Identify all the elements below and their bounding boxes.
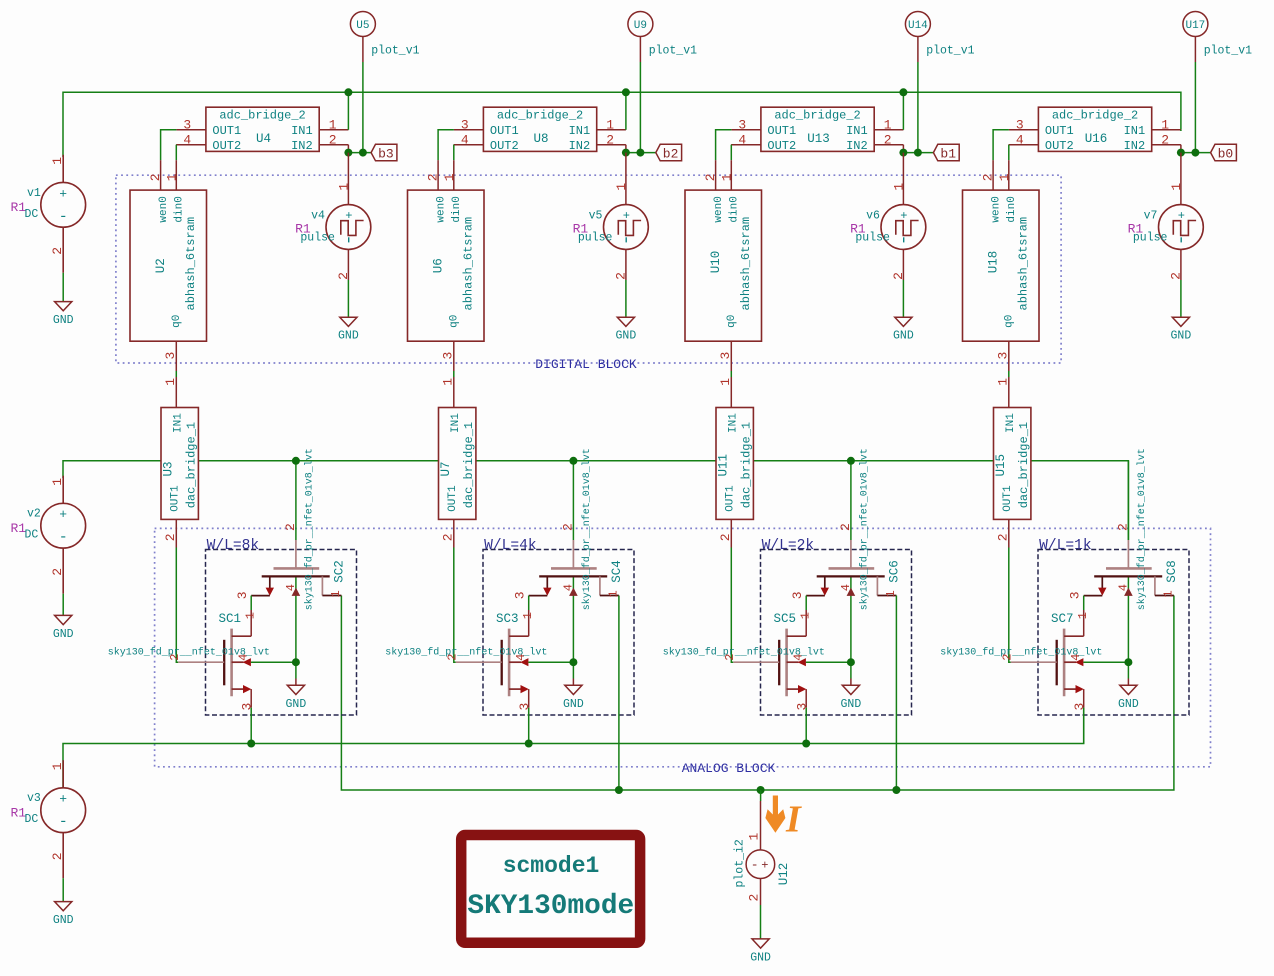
ground under v1 (53, 302, 74, 328)
svg-text:W/L=8k: W/L=8k (207, 538, 260, 554)
analog block border (155, 528, 1211, 766)
abhash_6tsram U18 (963, 160, 1040, 371)
svg-text:W/L=1k: W/L=1k (1039, 538, 1092, 554)
wire v2 to ground (62, 594, 64, 616)
wire U18 q0 to U15 IN1 (1008, 371, 1010, 377)
wire U15 OUT1 down to SC7 gate (1009, 548, 1011, 663)
svg-text:1: 1 (1161, 118, 1169, 133)
svg-text:2: 2 (283, 523, 298, 531)
svg-text:3: 3 (461, 118, 469, 133)
wire SC6 drain to SC5 drain (805, 596, 807, 610)
svg-text:DC: DC (25, 208, 39, 221)
wire U13 OUT2 to U10 din0 (730, 145, 732, 161)
pulse source v4 (295, 180, 371, 280)
wire probe U5 down to IN2 junction (362, 62, 364, 153)
svg-text:q0: q0 (726, 315, 738, 328)
svg-text:-: - (751, 857, 759, 872)
svg-text:3: 3 (738, 118, 746, 133)
svg-text:2: 2 (336, 272, 351, 280)
svg-text:dac_bridge_1: dac_bridge_1 (185, 422, 199, 508)
voltage source v3 (DC) (11, 760, 86, 878)
wire SC5 bulk to gnd junction (806, 662, 851, 685)
nfet SC3 (sky130_fd_pr__nfet_01v8_lvt) (385, 610, 547, 711)
wire U12 to ground (760, 905, 762, 939)
svg-text:SC8: SC8 (1165, 560, 1179, 583)
wire v4 to ground (347, 280, 349, 317)
wire SC1 bulk to gnd junction (251, 662, 296, 685)
svg-text:wen0: wen0 (713, 196, 725, 222)
abhash_6tsram U6 (408, 160, 485, 371)
wire junction down to pulse source v4 (347, 153, 349, 180)
svg-text:2: 2 (50, 247, 65, 255)
svg-text:IN2: IN2 (291, 139, 313, 153)
svg-text:U4: U4 (256, 132, 271, 146)
wire U16 OUT2 to U18 din0 (1008, 145, 1010, 161)
svg-text:3: 3 (794, 703, 809, 711)
wire bottom rail down to U12 (760, 790, 762, 801)
svg-text:SC1: SC1 (219, 612, 242, 626)
nfet SC7 (sky130_fd_pr__nfet_01v8_lvt) (940, 610, 1102, 711)
wire SC6 source to bottom rail (895, 596, 897, 791)
svg-text:U2: U2 (154, 258, 168, 273)
ground under v3 (53, 902, 74, 928)
ground in analog cell col 2 (563, 685, 584, 711)
svg-text:b2: b2 (663, 146, 679, 161)
svg-text:-: - (59, 529, 68, 546)
wire U4 IN2 down to junction (347, 145, 349, 153)
wire v7 to ground (1180, 280, 1182, 317)
svg-text:1: 1 (164, 173, 179, 181)
wire probe U17 down to IN2 junction (1194, 62, 1196, 153)
svg-text:adc_bridge_2: adc_bridge_2 (219, 108, 305, 122)
svg-text:v1: v1 (27, 187, 41, 200)
svg-text:1: 1 (1162, 590, 1176, 597)
wire U16 IN1 up to top rail (1180, 130, 1182, 131)
svg-text:3: 3 (517, 703, 532, 711)
svg-text:1: 1 (521, 612, 535, 619)
svg-text:1: 1 (884, 118, 892, 133)
svg-text:3: 3 (1016, 118, 1024, 133)
svg-text:SC2: SC2 (333, 560, 347, 583)
wire U13 IN2 down to junction (902, 145, 904, 153)
ground in analog cell col 4 (1118, 685, 1139, 711)
svg-text:U9: U9 (634, 20, 647, 32)
svg-text:4: 4 (738, 133, 746, 148)
wire U8 OUT2 to U6 din0 (453, 145, 455, 161)
svg-text:1: 1 (50, 157, 65, 165)
ground in analog cell col 3 (841, 685, 862, 711)
abhash_6tsram U2 (130, 160, 207, 371)
junction IN2 col 4 (1177, 149, 1200, 157)
voltage source v2 (DC) (11, 476, 86, 594)
wire SC2 drain to SC1 drain (250, 596, 252, 610)
svg-text:I: I (785, 799, 802, 841)
voltage source v1 (DC) (11, 155, 86, 273)
wire U4 OUT2 to U2 din0 (175, 145, 177, 161)
svg-text:IN2: IN2 (846, 139, 868, 153)
svg-text:plot_v1: plot_v1 (371, 45, 419, 58)
svg-text:dac_bridge_1: dac_bridge_1 (1017, 422, 1031, 508)
svg-text:1: 1 (996, 378, 1011, 386)
svg-text:OUT1: OUT1 (1045, 124, 1074, 138)
svg-text:U6: U6 (431, 258, 445, 273)
wire U13 OUT1 to U10 wen0 (716, 130, 732, 160)
digital block label (535, 357, 637, 372)
wire junction to flag b0 (1181, 152, 1211, 154)
svg-text:1: 1 (337, 183, 352, 191)
svg-text:2: 2 (148, 173, 163, 181)
flag b0 (1211, 144, 1237, 161)
junction IN2 col 1 (344, 149, 367, 157)
dac_bridge_1 U15 (994, 377, 1032, 548)
wire U2 q0 to U3 IN1 (175, 371, 177, 377)
svg-text:GND: GND (1118, 698, 1139, 711)
adc_bridge_2 U13 (731, 107, 903, 153)
svg-text:SC6: SC6 (888, 560, 902, 583)
wire U16 OUT1 to U18 wen0 (993, 130, 1009, 160)
svg-text:U11: U11 (717, 454, 731, 477)
svg-text:v5: v5 (589, 209, 603, 222)
svg-text:1: 1 (50, 478, 65, 486)
svg-text:OUT2: OUT2 (490, 139, 519, 153)
svg-text:U17: U17 (1185, 20, 1205, 32)
svg-text:plot_v1: plot_v1 (649, 45, 697, 58)
svg-text:2: 2 (1161, 133, 1169, 148)
svg-text:2: 2 (746, 894, 761, 902)
adc_bridge_2 U16 (1009, 107, 1181, 153)
svg-text:1: 1 (442, 173, 457, 181)
wire lower rail from v3 to SC1/SC3/SC5/SC7 sources (63, 708, 1084, 788)
svg-text:3: 3 (239, 703, 254, 711)
svg-text:2: 2 (1169, 272, 1184, 280)
flag b1 (933, 144, 959, 161)
wire probe U9 down to IN2 junction (639, 62, 641, 153)
svg-text:GND: GND (563, 698, 584, 711)
svg-text:2: 2 (703, 173, 718, 181)
svg-text:U18: U18 (986, 251, 1000, 274)
wire SC1 source to lower rail (250, 708, 252, 744)
svg-text:adc_bridge_2: adc_bridge_2 (774, 108, 860, 122)
wire junction down to pulse source v7 (1180, 153, 1182, 180)
wire mid rail down to SC2 gate (295, 461, 297, 540)
W/L label col 4 (1039, 538, 1092, 554)
nfet SC5 (sky130_fd_pr__nfet_01v8_lvt) (663, 610, 825, 711)
svg-text:dac_bridge_1: dac_bridge_1 (740, 422, 754, 508)
ground under v5 (616, 317, 637, 343)
svg-text:2: 2 (50, 852, 65, 860)
ground under U12 (750, 939, 771, 965)
svg-text:SC5: SC5 (774, 612, 797, 626)
svg-text:4: 4 (1016, 133, 1024, 148)
svg-text:U12: U12 (777, 863, 791, 886)
svg-text:2: 2 (996, 533, 1011, 541)
svg-text:1: 1 (1076, 612, 1090, 619)
dac_bridge_1 U3 (161, 377, 199, 548)
voltage probe U5 (plot_v1) (350, 12, 419, 63)
svg-text:sky130_fd_pr__nfet_01v8_lvt: sky130_fd_pr__nfet_01v8_lvt (108, 647, 270, 659)
svg-text:b3: b3 (378, 146, 394, 161)
svg-text:OUT2: OUT2 (767, 139, 796, 153)
svg-text:U8: U8 (534, 132, 549, 146)
svg-text:abhash_6tsram: abhash_6tsram (739, 217, 753, 311)
junction bulk col 3 (847, 658, 855, 666)
ground under v4 (338, 317, 359, 343)
svg-text:2: 2 (838, 523, 853, 531)
wire junction down to pulse source v5 (625, 153, 627, 180)
svg-text:2: 2 (718, 533, 733, 541)
svg-text:GND: GND (841, 698, 862, 711)
pulse source v6 (850, 180, 926, 280)
wire v6 to ground (902, 280, 904, 317)
W/L label col 1 (207, 538, 260, 554)
current direction arrow I (765, 796, 802, 841)
svg-text:b1: b1 (940, 146, 956, 161)
wire bottom rail joining SC2/SC4/SC6/SC8 to current probe U12 (341, 596, 1174, 791)
wire SC5 source to lower rail (805, 708, 807, 744)
svg-text:GND: GND (338, 330, 359, 343)
ground under v2 (53, 615, 74, 641)
svg-text:+: + (761, 858, 768, 872)
svg-text:1: 1 (50, 762, 65, 770)
wire junction to flag b2 (626, 152, 656, 154)
svg-text:2: 2 (163, 533, 178, 541)
wire junction down to pulse source v6 (902, 153, 904, 180)
junction mid rail col 2 (569, 457, 577, 465)
svg-text:OUT1: OUT1 (490, 124, 519, 138)
wire U11 OUT1 down to SC5 gate (731, 548, 733, 663)
svg-text:OUT1: OUT1 (212, 124, 241, 138)
wire mid rail down to SC8 gate (1127, 461, 1129, 540)
svg-text:sky130_fd_pr__nfet_01v8_lvt: sky130_fd_pr__nfet_01v8_lvt (663, 647, 825, 659)
svg-text:1: 1 (244, 612, 258, 619)
svg-text:wen0: wen0 (158, 196, 170, 222)
svg-text:GND: GND (53, 628, 74, 641)
ground under v6 (893, 317, 914, 343)
wire middle rail from v2 to nfet gates (63, 461, 1128, 540)
wire v5 to ground (625, 280, 627, 317)
junction top rail col 3 (899, 88, 907, 96)
svg-text:1: 1 (747, 833, 762, 841)
nfet SC1 (sky130_fd_pr__nfet_01v8_lvt) (108, 610, 270, 711)
nfet SC6 (sky130_fd_pr__nfet_01v8_lvt) (790, 448, 902, 610)
svg-text:OUT1: OUT1 (447, 485, 459, 512)
junction bottom rail col 3 (892, 786, 900, 794)
svg-text:1: 1 (614, 183, 629, 191)
svg-text:2: 2 (614, 272, 629, 280)
svg-text:4: 4 (461, 133, 469, 148)
svg-text:1: 1 (606, 118, 614, 133)
svg-text:1: 1 (329, 118, 337, 133)
svg-text:OUT1: OUT1 (724, 485, 736, 512)
svg-text:IN2: IN2 (569, 139, 591, 153)
svg-text:3: 3 (235, 591, 250, 599)
svg-text:+: + (59, 507, 67, 522)
junction mid rail col 3 (847, 457, 855, 465)
svg-text:OUT1: OUT1 (1002, 485, 1014, 512)
wire SC3 bulk to gnd junction (528, 662, 573, 685)
svg-text:v3: v3 (27, 792, 41, 805)
wire SC8 drain to SC7 drain (1083, 596, 1085, 610)
svg-text:W/L=4k: W/L=4k (484, 538, 537, 554)
abhash_6tsram U10 (685, 160, 762, 371)
svg-text:v4: v4 (311, 209, 325, 222)
svg-text:2: 2 (1116, 523, 1131, 531)
svg-text:v6: v6 (866, 209, 880, 222)
svg-text:-: - (59, 208, 68, 225)
current probe U12 (plot_i2) (734, 801, 791, 905)
junction mid rail col 1 (292, 457, 300, 465)
junction bottom rail col 2 (615, 786, 623, 794)
svg-text:2: 2 (561, 523, 576, 531)
voltage probe U9 (plot_v1) (628, 12, 697, 63)
svg-text:+: + (623, 209, 630, 223)
svg-text:+: + (59, 792, 67, 807)
wire probe U14 down to IN2 junction (917, 62, 919, 153)
analog cell border col 2 (483, 550, 634, 716)
svg-text:3: 3 (995, 352, 1010, 360)
svg-text:abhash_6tsram: abhash_6tsram (462, 217, 476, 311)
svg-text:q0: q0 (449, 315, 461, 328)
pulse source v5 (573, 180, 649, 280)
wire SC7 source to lower rail (1083, 708, 1085, 744)
svg-text:IN1: IN1 (1124, 124, 1146, 138)
ground in analog cell col 1 (286, 685, 307, 711)
wire SC2 bulk down to gnd junction (295, 600, 297, 662)
junction lower rail col 2 (525, 740, 533, 748)
svg-text:IN1: IN1 (450, 413, 462, 433)
svg-text:sky130_fd_pr__nfet_01v8_lvt: sky130_fd_pr__nfet_01v8_lvt (303, 448, 315, 610)
svg-text:1: 1 (163, 378, 178, 386)
nfet SC2 (sky130_fd_pr__nfet_01v8_lvt) (235, 448, 347, 610)
digital block border (116, 175, 1061, 363)
wire U4 IN1 up to top rail (347, 92, 349, 130)
analog cell border col 3 (761, 550, 912, 716)
svg-text:GND: GND (1171, 330, 1192, 343)
svg-text:SC7: SC7 (1051, 612, 1074, 626)
svg-text:pulse: pulse (300, 232, 335, 245)
junction bottom rail at U12 (757, 786, 765, 794)
svg-text:U7: U7 (439, 461, 453, 476)
junction bulk col 1 (292, 658, 300, 666)
svg-text:sky130_fd_pr__nfet_01v8_lvt: sky130_fd_pr__nfet_01v8_lvt (858, 448, 870, 610)
svg-text:3: 3 (183, 118, 191, 133)
flag b2 (656, 144, 682, 161)
junction bulk col 2 (569, 658, 577, 666)
junction lower rail col 1 (247, 740, 255, 748)
svg-text:2: 2 (981, 173, 996, 181)
svg-text:DIGITAL BLOCK: DIGITAL BLOCK (535, 357, 637, 372)
wire v1 to ground (62, 273, 64, 302)
svg-text:2: 2 (891, 272, 906, 280)
svg-text:U5: U5 (356, 20, 369, 32)
svg-text:3: 3 (512, 591, 527, 599)
svg-text:1: 1 (892, 183, 907, 191)
svg-text:dac_bridge_1: dac_bridge_1 (462, 422, 476, 508)
svg-text:v7: v7 (1144, 209, 1158, 222)
svg-text:v2: v2 (27, 508, 41, 521)
svg-text:sky130_fd_pr__nfet_01v8_lvt: sky130_fd_pr__nfet_01v8_lvt (385, 647, 547, 659)
analog block label (682, 761, 776, 776)
svg-text:2: 2 (606, 133, 614, 148)
junction IN2 col 3 (899, 149, 922, 157)
wire U10 q0 to U11 IN1 (730, 371, 732, 377)
svg-text:GND: GND (53, 914, 74, 927)
svg-text:U13: U13 (807, 132, 830, 146)
wire U13 IN1 up to top rail (902, 92, 904, 130)
wire U8 IN1 up to top rail (625, 92, 627, 130)
adc_bridge_2 U8 (454, 107, 626, 153)
svg-text:U16: U16 (1085, 132, 1108, 146)
wire SC4 drain to SC3 drain (528, 596, 530, 610)
svg-text:+: + (1178, 209, 1185, 223)
svg-text:4: 4 (839, 584, 853, 591)
W/L label col 2 (484, 538, 537, 554)
svg-text:ANALOG BLOCK: ANALOG BLOCK (682, 761, 776, 776)
svg-text:OUT2: OUT2 (212, 139, 241, 153)
svg-text:DC: DC (25, 529, 39, 542)
svg-text:3: 3 (163, 352, 178, 360)
svg-text:3: 3 (1067, 591, 1082, 599)
svg-text:OUT1: OUT1 (767, 124, 796, 138)
junction top rail col 2 (622, 88, 630, 96)
svg-text:W/L=2k: W/L=2k (762, 538, 815, 554)
svg-text:U3: U3 (162, 461, 176, 476)
svg-text:SC3: SC3 (496, 612, 519, 626)
ground under v7 (1171, 317, 1192, 343)
svg-text:wen0: wen0 (436, 196, 448, 222)
wire U6 q0 to U7 IN1 (453, 371, 455, 377)
wire U4 OUT1 to U2 wen0 (161, 130, 177, 160)
svg-text:IN1: IN1 (172, 413, 184, 433)
voltage probe U14 (plot_v1) (905, 12, 974, 63)
wire SC6 bulk down to gnd junction (850, 600, 852, 662)
svg-text:1: 1 (329, 590, 343, 597)
svg-text:GND: GND (893, 330, 914, 343)
svg-text:1: 1 (441, 378, 456, 386)
wire U7 OUT1 down to SC3 gate (454, 548, 456, 663)
wire U8 IN2 down to junction (625, 145, 627, 153)
wire SC8 bulk down to gnd junction (1127, 600, 1129, 662)
svg-text:DC: DC (25, 813, 39, 826)
svg-text:q0: q0 (171, 315, 183, 328)
pulse source v7 (1128, 180, 1204, 280)
svg-text:1: 1 (997, 173, 1012, 181)
svg-text:IN1: IN1 (846, 124, 868, 138)
svg-text:SC4: SC4 (610, 560, 624, 583)
adc_bridge_2 U4 (176, 107, 348, 153)
svg-text:IN1: IN1 (569, 124, 591, 138)
W/L label col 3 (762, 538, 815, 554)
wire top input rail from v1 to column IN1 pins (63, 92, 1181, 157)
svg-text:sky130_fd_pr__nfet_01v8_lvt: sky130_fd_pr__nfet_01v8_lvt (581, 448, 593, 610)
svg-text:1: 1 (799, 612, 813, 619)
svg-text:U10: U10 (709, 251, 723, 274)
svg-text:sky130_fd_pr__nfet_01v8_lvt: sky130_fd_pr__nfet_01v8_lvt (940, 647, 1102, 659)
svg-text:+: + (59, 186, 67, 201)
wire SC7 bulk to gnd junction (1083, 662, 1128, 685)
dac_bridge_1 U11 (716, 377, 754, 548)
svg-text:4: 4 (284, 584, 298, 591)
wire junction to flag b1 (903, 152, 933, 154)
wire SC3 source to lower rail (528, 708, 530, 744)
svg-text:SKY130mode: SKY130mode (467, 891, 634, 922)
svg-text:sky130_fd_pr__nfet_01v8_lvt: sky130_fd_pr__nfet_01v8_lvt (1136, 448, 1148, 610)
svg-text:-: - (59, 814, 68, 831)
svg-text:plot_v1: plot_v1 (1204, 45, 1252, 58)
analog cell border col 4 (1038, 550, 1189, 716)
svg-text:+: + (345, 209, 352, 223)
svg-text:GND: GND (616, 330, 637, 343)
